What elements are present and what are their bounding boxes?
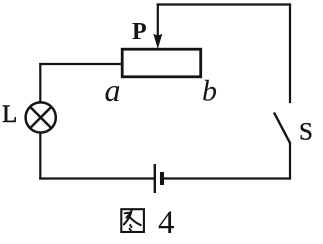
svg-text:P: P [132, 19, 147, 45]
svg-text:S: S [299, 119, 313, 146]
wire wiper shaft [157, 5, 159, 39]
wire right vertical lower (switch to bottom) [289, 143, 291, 179]
switch S blade [274, 113, 290, 144]
svg-text:L: L [2, 101, 17, 128]
svg-text:4: 4 [158, 205, 175, 241]
rheostat R (resistor body) [122, 49, 201, 77]
wire top horizontal (P wiper to right side) [158, 3, 290, 5]
wire right vertical upper (to switch) [289, 5, 291, 103]
svg-text:b: b [202, 75, 217, 108]
wire bottom left (lamp to battery) [40, 177, 154, 179]
battery cell: long plate (left) [154, 164, 156, 193]
wire lamp bottom vertical [39, 133, 41, 179]
wiper arrowhead P [153, 34, 162, 49]
battery cell: short thick plate (right) [160, 172, 164, 185]
svg-text:a: a [105, 72, 121, 108]
wire left vertical to lamp [39, 64, 41, 102]
wire rect left stub to corner [40, 63, 122, 65]
wire bottom right (battery to switch) [163, 177, 290, 179]
lamp L (circle with X) [26, 102, 56, 132]
caption: character 图 drawn as strokes [121, 209, 144, 232]
